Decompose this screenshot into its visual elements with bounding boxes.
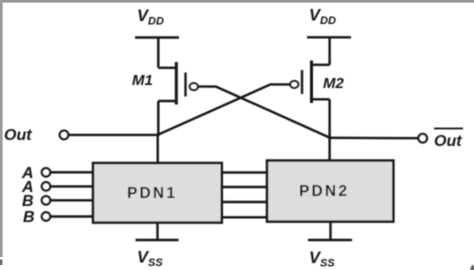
- wire PDN2 to VSS: [329, 222, 331, 240]
- input terminal A (2nd): [21, 179, 93, 196]
- svg-text:PDN2: PDN2: [299, 183, 349, 200]
- wire Out terminal to node Out: [69, 134, 158, 136]
- wire OutBar terminal to node OutBar: [330, 137, 419, 140]
- VDD supply symbol right: [307, 36, 351, 38]
- VSS supply symbol right: [308, 239, 352, 241]
- node Out junction to PDN1: [156, 135, 158, 164]
- svg-text:M2: M2: [323, 75, 344, 92]
- terminal OutBar (open circle): [418, 134, 427, 143]
- wire M2 drain down to node OutBar: [328, 99, 330, 138]
- VSS supply symbol left: [136, 239, 179, 241]
- wire PDN1 to PDN2 row2: [222, 186, 267, 188]
- wire PDN1 to VSS: [156, 223, 158, 240]
- input terminal B (2nd): [23, 209, 93, 226]
- terminal Out (open circle): [60, 131, 69, 140]
- transistor M2 (PMOS): [290, 61, 329, 104]
- frame left border: [0, 0, 3, 257]
- frame top border: [0, 0, 474, 3]
- wire VDD to M2 source: [328, 37, 330, 65]
- VDD supply symbol left: [135, 36, 179, 38]
- svg-text:Out: Out: [434, 133, 462, 150]
- scan artefact left edge mark: [0, 260, 2, 266]
- node OutBar junction to PDN2: [328, 138, 330, 162]
- wire PDN1 to PDN2 row3: [222, 201, 267, 203]
- svg-text:B: B: [23, 209, 35, 226]
- input terminal B: [22, 193, 93, 210]
- wire M1 drain down to node Out: [157, 101, 159, 136]
- svg-text:B: B: [22, 193, 34, 210]
- transistor M1 (PMOS): [158, 62, 198, 105]
- wire M2 gate cross-coupled to node Out (diagonal): [158, 84, 291, 134]
- input terminal A: [21, 165, 93, 182]
- wire PDN1 to PDN2 row1: [222, 171, 267, 173]
- wire VDD to M1 source: [157, 38, 159, 68]
- svg-text:M1: M1: [132, 72, 153, 89]
- svg-text:PDN1: PDN1: [127, 185, 177, 202]
- wire PDN1 to PDN2 row4: [222, 216, 267, 218]
- svg-text:Out: Out: [4, 127, 32, 144]
- wire M1 gate cross-coupled to node OutBar (diagonal): [198, 87, 330, 138]
- block PDN1: [93, 163, 222, 223]
- block PDN2: [267, 161, 393, 222]
- scan artefact bottom-right corner: [470, 265, 474, 270]
